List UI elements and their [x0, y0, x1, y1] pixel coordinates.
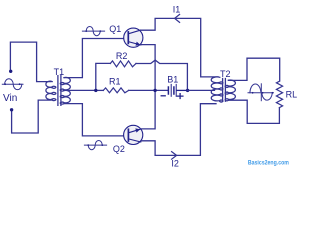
svg-text:B1: B1 — [167, 74, 178, 84]
svg-text:Vin: Vin — [3, 93, 17, 104]
svg-text:R1: R1 — [109, 77, 121, 87]
battery minus sign — [161, 95, 165, 97]
svg-text:T2: T2 — [220, 69, 231, 79]
transformer T2 secondary winding — [225, 80, 235, 101]
transistor Q1 — [124, 28, 143, 47]
transformer T1 primary winding — [46, 81, 56, 100]
wire Q1 collector via I1 to T2 primary top — [141, 18, 218, 77]
wire Q2 emitter up to node A — [141, 90, 155, 128]
transistor Q2 — [124, 125, 143, 144]
wire R2 right with hump over emitter wire, down to battery+ node — [136, 60, 187, 90]
battery B1 — [168, 84, 187, 96]
transformer T1 secondary winding — [60, 77, 70, 104]
wire T1 secondary top to Q1 base — [65, 39, 129, 78]
resistor RL (vertical) — [276, 81, 282, 107]
svg-text:R2: R2 — [116, 51, 128, 61]
arrow I2 (pointing right) — [172, 152, 177, 160]
battery plus sign — [177, 94, 183, 99]
resistor R1 — [103, 88, 128, 93]
svg-text:I2: I2 — [171, 158, 179, 168]
wire T1 secondary bottom to Q2 base — [65, 104, 129, 136]
sine waveform symbol at Q1 base — [82, 27, 104, 36]
wire T1 secondary center tap to node — [64, 89, 96, 91]
wire Vin top terminal to T1 primary top — [10, 42, 51, 82]
wire battery node to T2 primary center tap — [188, 89, 215, 91]
node A emitters junction dot — [153, 89, 156, 92]
wire Q2 collector via I2 to T2 primary bottom — [141, 104, 216, 156]
wire node to R1 — [96, 89, 104, 91]
transformer T2 primary winding — [211, 77, 223, 102]
node battery+ junction dot — [186, 89, 189, 92]
resistor R2 — [110, 61, 136, 67]
wire Vin bottom terminal to T1 primary bottom — [12, 100, 51, 133]
wire R2 left vertical from tap node — [96, 63, 111, 90]
svg-text:Basics2eng.com: Basics2eng.com — [248, 160, 289, 167]
svg-text:RL: RL — [286, 90, 298, 100]
wire Q1 emitter down to node A (crosses R2 wire) — [141, 45, 155, 61]
transformer T2 core — [223, 79, 226, 102]
output sine waveform symbol (amplified) — [248, 84, 273, 101]
transformer T1 core — [58, 76, 61, 106]
wire R1 to battery — [129, 89, 168, 91]
wire T2 secondary bottom to RL bottom — [229, 100, 280, 123]
sine waveform symbol at Q2 base (inverted phase) — [84, 141, 106, 150]
svg-text:Q1: Q1 — [109, 24, 121, 34]
node Vin+ terminal dot — [9, 70, 12, 73]
node T1 tap junction dot — [94, 89, 97, 92]
svg-text:T1: T1 — [54, 67, 65, 77]
node Vin- terminal dot — [10, 108, 13, 111]
wire T2 secondary top to RL top — [229, 58, 280, 81]
svg-text:Q2: Q2 — [113, 144, 125, 154]
arrow I1 (pointing left) — [175, 14, 180, 22]
svg-text:I1: I1 — [173, 5, 181, 15]
source Vin sine waveform symbol — [2, 79, 23, 90]
